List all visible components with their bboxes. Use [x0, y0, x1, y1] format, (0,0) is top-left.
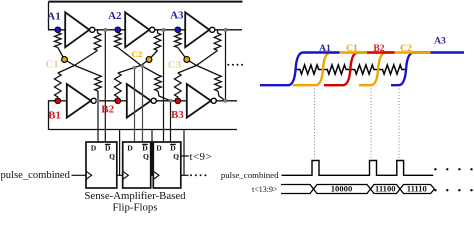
wire FF2 Dbar feed tap: [142, 66, 144, 142]
wire interpolation diagonal through C1: [58, 48, 98, 76]
resistor interpolation chain: [295, 65, 406, 74]
junction tap C2a square: [133, 66, 136, 69]
pin CLK of FF1: [86, 171, 92, 179]
svg-text:B1: B1: [48, 110, 61, 122]
junction top wire cell 1: [104, 28, 107, 31]
svg-text:Flip-Flops: Flip-Flops: [112, 201, 157, 213]
inverter U5 bottom: [127, 84, 151, 118]
waveform A3: [391, 53, 464, 86]
waveform pulse_combined: [282, 161, 434, 176]
svg-text:Q: Q: [173, 152, 179, 161]
wire bottom chain: [52, 100, 237, 102]
flip-flop FF2: [123, 142, 151, 188]
resistor to B3 node: [175, 73, 182, 100]
resistor from inverter U3 output: [214, 30, 221, 51]
wire node A4 drop: [225, 30, 227, 101]
wire clk after FF3: [181, 174, 189, 176]
svg-text:B3: B3: [171, 109, 184, 121]
ellipsis bus continues: [434, 189, 436, 191]
svg-text:A2: A2: [108, 10, 122, 22]
wire FF1 D feed from node B2: [97, 101, 99, 142]
svg-text:A1: A1: [47, 10, 60, 22]
svg-text:D: D: [156, 144, 162, 153]
junction top wire cell 2: [162, 28, 165, 31]
wire bus riser 2: [151, 130, 153, 176]
resistor to bottom inverter output node: [215, 75, 222, 91]
junction bottom wire cell 1: [96, 99, 99, 102]
node B2: [115, 98, 121, 104]
inverter U4 bottom: [67, 84, 91, 118]
flip-flop FF3: [153, 142, 181, 188]
wire crossing diagonal: [58, 51, 98, 74]
svg-text:D: D: [127, 144, 133, 153]
wire Q output FF3: [181, 155, 189, 157]
svg-text:B2: B2: [101, 104, 114, 116]
inverter U3 top: [185, 12, 209, 47]
waveform B2: [324, 53, 395, 86]
wire FF1 Dbar feed from node A2: [104, 30, 106, 142]
svg-text:A3: A3: [434, 35, 446, 46]
resistor from A2 node: [115, 33, 122, 48]
resistor from A3 node: [175, 33, 182, 48]
svg-text:pulse_combined: pulse_combined: [1, 170, 71, 181]
wire FF3 D feed from node A3: [163, 30, 165, 142]
wire resistor stub to node B2: [97, 91, 99, 101]
wire crossing diagonal: [118, 48, 158, 76]
wire clk FF2 to FF3: [151, 174, 154, 176]
waveform C2: [359, 53, 431, 86]
svg-text:11100: 11100: [375, 184, 396, 194]
wire FF3 Dbar feed from node B3: [170, 101, 172, 142]
wire pulse bus L: [49, 101, 238, 130]
ellipsis clk continues: [190, 174, 192, 176]
wire bus riser 3: [183, 130, 185, 176]
svg-text:C2: C2: [132, 49, 143, 59]
svg-text:pulse_combined: pulse_combined: [221, 170, 279, 180]
resistor to B2 node: [115, 73, 122, 100]
node B3: [175, 98, 181, 104]
wire resistor stub to node B4: [218, 91, 226, 101]
dotted timing marker: [370, 89, 372, 160]
wire input drop: [49, 2, 57, 30]
svg-text:D: D: [91, 144, 97, 153]
svg-text:C1: C1: [346, 43, 358, 54]
junction top wire cell 3: [224, 28, 227, 31]
flip-flop FF1: [86, 142, 117, 188]
svg-text:A1: A1: [319, 43, 331, 54]
node C1: [62, 57, 68, 63]
node B1: [55, 98, 61, 104]
wire clk FF1 to FF2: [117, 174, 123, 176]
waveform C1: [293, 53, 367, 86]
resistor to bottom inverter output node: [95, 75, 102, 91]
svg-text:A3: A3: [170, 10, 184, 22]
wire interpolation diagonal through C2: [118, 51, 158, 74]
node A2: [115, 27, 121, 33]
node A3: [175, 27, 181, 33]
wire pulse_combined to FF1 clk: [72, 174, 87, 176]
svg-text:11110: 11110: [407, 184, 427, 194]
inverter U1 top: [65, 12, 89, 47]
junction tap C2b square: [141, 65, 144, 68]
junction bottom wire cell 2: [169, 99, 172, 102]
pin CLK of FF2: [123, 171, 129, 179]
wire crossing diagonal: [178, 51, 218, 74]
resistor to B1 node: [55, 73, 62, 100]
svg-text:B2: B2: [373, 43, 384, 54]
node C2: [146, 57, 152, 63]
inverter U6 bottom: [187, 84, 211, 118]
wire top feed: [49, 1, 243, 3]
resistor from A1 node: [55, 33, 62, 48]
svg-text:C2: C2: [400, 43, 412, 54]
node A1: [55, 27, 61, 33]
wire interpolation diagonal through C3: [178, 48, 218, 76]
dotted timing marker: [398, 89, 400, 160]
svg-text:C1: C1: [45, 59, 58, 71]
wire bus riser 1: [119, 130, 121, 176]
wire FF2 D feed tap: [134, 68, 136, 143]
waveform A1: [260, 53, 340, 86]
dotted timing marker: [314, 89, 316, 160]
node C3: [184, 57, 190, 63]
wire top chain: [49, 29, 243, 31]
wire resistor stub to node B3: [158, 91, 171, 101]
ellipsis pulse continues: [434, 168, 436, 170]
ellipsis chain continues: [227, 64, 229, 66]
svg-text:Q: Q: [109, 152, 115, 161]
pin CLK of FF3: [153, 171, 159, 179]
inverter U2 top: [125, 12, 149, 47]
svg-text:Q: Q: [143, 152, 149, 161]
svg-text:t<13:9>: t<13:9>: [252, 185, 278, 194]
svg-text:t<9>: t<9>: [190, 151, 213, 163]
resistor from inverter U1 output: [94, 30, 101, 51]
resistor to bottom inverter output node: [155, 75, 162, 91]
resistor from inverter U2 output: [154, 30, 161, 51]
svg-text:C3: C3: [168, 59, 182, 71]
svg-text:Sense-Amplifier-Based: Sense-Amplifier-Based: [84, 190, 186, 202]
svg-text:10000: 10000: [331, 184, 352, 194]
waveform t bus: [281, 185, 435, 194]
junction bottom wire cell 3: [224, 99, 227, 102]
